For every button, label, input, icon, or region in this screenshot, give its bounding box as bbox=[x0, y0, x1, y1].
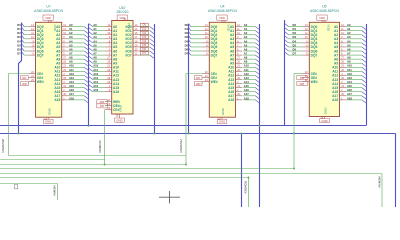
bottom control wire y160 bbox=[0, 159, 105, 161]
svg-text:A8: A8 bbox=[93, 56, 97, 60]
U? WE# global label bbox=[21, 82, 29, 86]
svg-text:MEMR#: MEMR# bbox=[53, 186, 57, 197]
svg-text:D7: D7 bbox=[185, 51, 189, 55]
svg-text:A16: A16 bbox=[244, 88, 249, 92]
IC U4 AS6C4008-55PCN body bbox=[209, 22, 235, 117]
svg-text:VCC: VCC bbox=[127, 23, 131, 30]
svg-text:A0: A0 bbox=[347, 23, 351, 27]
MEMR vertical net label bbox=[53, 186, 57, 197]
svg-text:A3: A3 bbox=[347, 35, 351, 39]
svg-text:RD: RD bbox=[22, 76, 26, 80]
svg-text:D5: D5 bbox=[185, 43, 189, 47]
svg-text:A4: A4 bbox=[347, 39, 351, 43]
U5 reference designator bbox=[322, 5, 326, 9]
bottom control wire y173 with right drop bbox=[0, 174, 382, 208]
IC U? AS6C4008-55PCN body bbox=[36, 22, 62, 117]
svg-text:D0: D0 bbox=[185, 23, 189, 27]
svg-text:A10: A10 bbox=[93, 64, 98, 68]
svg-text:GND: GND bbox=[219, 119, 225, 123]
data bus vertical left of U5 bbox=[284, 20, 286, 126]
svg-text:A8: A8 bbox=[244, 56, 248, 60]
svg-text:A5: A5 bbox=[347, 43, 351, 47]
svg-text:A18: A18 bbox=[54, 98, 60, 102]
U5 top power pin VDD pin 32 with VDD global label bbox=[317, 15, 331, 32]
U10 top power pin VCC pin 32 with VDD global label bbox=[117, 15, 131, 30]
svg-text:ROMOE#: ROMOE# bbox=[244, 181, 248, 194]
svg-text:A12: A12 bbox=[244, 72, 249, 76]
svg-text:A15: A15 bbox=[93, 84, 98, 88]
svg-text:A7: A7 bbox=[244, 51, 248, 55]
svg-text:A4: A4 bbox=[69, 39, 73, 43]
svg-text:D2: D2 bbox=[293, 31, 297, 35]
U? reference designator bbox=[46, 5, 50, 9]
U4 OE WE label wires bbox=[201, 78, 203, 84]
svg-text:RAMCS0#: RAMCS0# bbox=[1, 138, 5, 152]
svg-text:A6: A6 bbox=[93, 47, 97, 51]
svg-text:D0: D0 bbox=[17, 23, 21, 27]
svg-text:A0: A0 bbox=[244, 23, 248, 27]
svg-text:D1: D1 bbox=[293, 27, 297, 31]
U? top power pin VDD pin 32 with VDD global label bbox=[43, 15, 57, 32]
svg-text:A10: A10 bbox=[69, 64, 74, 68]
U? address wires A0-A18 to bus with net labels and bus entries bbox=[69, 23, 89, 103]
svg-text:A7: A7 bbox=[69, 51, 73, 55]
svg-text:A14: A14 bbox=[93, 80, 98, 84]
svg-text:A11: A11 bbox=[347, 68, 352, 72]
U5 address wires A0-A18 to bus with net labels and bus entries bbox=[346, 23, 366, 103]
svg-text:ROMCS#: ROMCS# bbox=[98, 140, 102, 153]
svg-text:A5: A5 bbox=[93, 43, 97, 47]
IC U5 AS6C4008-55PCN body bbox=[309, 22, 339, 116]
svg-text:I/O7: I/O7 bbox=[125, 53, 131, 57]
U4 WE# global label bbox=[194, 82, 202, 86]
svg-text:U4: U4 bbox=[220, 5, 224, 9]
svg-text:D0: D0 bbox=[293, 23, 297, 27]
svg-text:GND: GND bbox=[47, 107, 51, 115]
svg-text:A5: A5 bbox=[69, 43, 73, 47]
U4 CE# wire to bottom bbox=[185, 74, 202, 166]
U4 OE# global label bbox=[194, 76, 202, 80]
svg-text:A2: A2 bbox=[347, 31, 351, 35]
svg-text:A15: A15 bbox=[244, 84, 249, 88]
U4 data wires D0-D7 from left bus with net labels and bus entries bbox=[185, 23, 203, 55]
data bus vertical left of U4 bbox=[188, 24, 190, 134]
svg-text:D3: D3 bbox=[17, 35, 21, 39]
svg-text:A17: A17 bbox=[347, 92, 352, 96]
svg-text:A18: A18 bbox=[228, 98, 234, 102]
svg-text:A18: A18 bbox=[347, 96, 352, 100]
svg-text:A8: A8 bbox=[69, 56, 73, 60]
data bus vertical left of U? bbox=[19, 23, 22, 134]
svg-text:GND: GND bbox=[45, 119, 51, 123]
svg-text:A12: A12 bbox=[69, 72, 74, 76]
svg-text:A0: A0 bbox=[69, 23, 73, 27]
U5 OE# global label bbox=[297, 76, 307, 80]
svg-text:D4: D4 bbox=[185, 39, 189, 43]
svg-text:A1: A1 bbox=[93, 27, 97, 31]
U5 WE# global label bbox=[297, 82, 307, 86]
svg-text:AS6C4008-55PCN: AS6C4008-55PCN bbox=[310, 9, 339, 13]
svg-text:A13: A13 bbox=[244, 76, 249, 80]
MEMW vertical net label bbox=[378, 177, 382, 188]
U? left-side pins with numbers and names bbox=[29, 24, 44, 84]
U? value label AS6C4008-55PCN bbox=[34, 9, 63, 13]
U10 right-side pins with numbers and names bbox=[125, 24, 139, 57]
U4 top power pin VDD pin 32 with VDD global label bbox=[217, 15, 231, 32]
bottom control wire y164 bbox=[0, 164, 186, 166]
svg-text:DQ7: DQ7 bbox=[211, 53, 218, 57]
svg-text:28C010: 28C010 bbox=[116, 10, 128, 14]
svg-text:D5: D5 bbox=[293, 43, 297, 47]
svg-text:D1: D1 bbox=[17, 27, 21, 31]
svg-text:A3: A3 bbox=[69, 35, 73, 39]
svg-text:A11: A11 bbox=[244, 68, 249, 72]
svg-text:A9: A9 bbox=[244, 60, 248, 64]
U5 data wires D0-D7 from left bus with net labels and bus entries bbox=[284, 23, 302, 55]
svg-text:A16: A16 bbox=[347, 88, 352, 92]
svg-text:A15: A15 bbox=[347, 84, 352, 88]
horizontal bus line 1 bbox=[0, 125, 366, 127]
svg-text:D1: D1 bbox=[185, 27, 189, 31]
U? bottom ground pin GND pin 16 with GND global label bbox=[43, 107, 53, 123]
svg-text:GND: GND bbox=[324, 107, 328, 115]
svg-text:A13: A13 bbox=[69, 76, 74, 80]
svg-text:VDD: VDD bbox=[327, 25, 331, 32]
bus line 2 right vertical drop bbox=[395, 134, 397, 208]
U5 CE# wire to bottom bbox=[294, 74, 302, 169]
svg-text:D7: D7 bbox=[143, 51, 147, 55]
svg-text:A14: A14 bbox=[244, 80, 249, 84]
svg-text:A2: A2 bbox=[244, 31, 248, 35]
svg-text:U?: U? bbox=[46, 5, 50, 9]
U10 reference designator bbox=[119, 6, 125, 10]
svg-text:A10: A10 bbox=[347, 64, 352, 68]
U10 label wires bbox=[105, 102, 107, 106]
address bus vertical between U? and U10 bbox=[88, 24, 90, 126]
svg-text:A6: A6 bbox=[347, 47, 351, 51]
svg-text:GND: GND bbox=[119, 104, 123, 112]
svg-text:AS6C4008-55PCN: AS6C4008-55PCN bbox=[34, 9, 63, 13]
svg-text:MEMW#: MEMW# bbox=[378, 177, 382, 188]
svg-text:A11: A11 bbox=[93, 68, 98, 72]
U10 address wires A0-A16 from bus with net labels and bus entries bbox=[89, 23, 105, 92]
U4 value label AS6C4008-55PCN bbox=[208, 9, 237, 13]
U? right-side pins with numbers and names bbox=[54, 24, 68, 102]
U5 bottom ground pin GND pin 16 with GND global label bbox=[320, 107, 330, 123]
svg-text:A4: A4 bbox=[93, 39, 97, 43]
svg-text:A3: A3 bbox=[93, 35, 97, 39]
IC U10 28C010 body bbox=[112, 21, 133, 115]
svg-text:A5: A5 bbox=[244, 43, 248, 47]
net drop to bottom at x248 bbox=[248, 178, 250, 208]
svg-text:WR: WR bbox=[300, 82, 305, 86]
svg-text:U10: U10 bbox=[119, 6, 125, 10]
RAMCS0 vertical net label bbox=[1, 138, 5, 152]
svg-text:A9: A9 bbox=[93, 60, 97, 64]
svg-text:A16: A16 bbox=[69, 88, 74, 92]
svg-text:RD: RD bbox=[100, 104, 104, 108]
U10 bottom ground pin GND pin 16 with GND global label bbox=[115, 104, 125, 122]
U10 CE# wire down bbox=[104, 110, 106, 166]
RAMCS0 horizontal wire bbox=[9, 155, 187, 157]
svg-text:D3: D3 bbox=[185, 35, 189, 39]
bottom control wire y168 bbox=[0, 168, 295, 170]
svg-text:D5: D5 bbox=[17, 43, 21, 47]
svg-text:U5: U5 bbox=[322, 5, 326, 9]
svg-text:A1: A1 bbox=[69, 27, 73, 31]
bus junction dots bbox=[18, 125, 295, 135]
address bus vertical right of U4 bbox=[259, 24, 261, 207]
svg-text:A10: A10 bbox=[244, 64, 249, 68]
svg-text:A2: A2 bbox=[93, 31, 97, 35]
svg-text:WE#: WE# bbox=[211, 80, 218, 84]
svg-text:GND: GND bbox=[321, 119, 327, 123]
svg-text:A14: A14 bbox=[347, 80, 352, 84]
svg-text:A3: A3 bbox=[244, 35, 248, 39]
bus vertical drop below horizontal bus 2 bbox=[241, 134, 243, 208]
svg-text:VDD: VDD bbox=[53, 25, 57, 32]
svg-text:A7: A7 bbox=[347, 51, 351, 55]
svg-text:A17: A17 bbox=[244, 92, 249, 96]
U5 value label AS6C4008-55PCN bbox=[310, 9, 339, 13]
U10 OE# global label bbox=[97, 104, 107, 108]
svg-text:VDD: VDD bbox=[119, 16, 125, 20]
svg-text:DQ7: DQ7 bbox=[311, 53, 318, 57]
svg-text:GND: GND bbox=[116, 118, 122, 122]
data bus vertical right of U10 bbox=[154, 24, 156, 134]
U? OE# global label bbox=[21, 76, 29, 80]
U10 data wires D0-D7 with labels and bus entries bbox=[140, 23, 154, 59]
svg-text:WE#: WE# bbox=[37, 80, 44, 84]
svg-text:RD: RD bbox=[300, 76, 304, 80]
U4 left-side pins with numbers and names bbox=[203, 24, 218, 84]
svg-text:A9: A9 bbox=[347, 60, 351, 64]
svg-text:VDD: VDD bbox=[45, 16, 51, 20]
svg-text:DQ7: DQ7 bbox=[37, 53, 44, 57]
svg-text:VDD: VDD bbox=[319, 16, 325, 20]
svg-text:D6: D6 bbox=[293, 47, 297, 51]
svg-text:D2: D2 bbox=[185, 31, 189, 35]
svg-text:A6: A6 bbox=[69, 47, 73, 51]
bottom left wire y183.5 bbox=[0, 184, 58, 201]
svg-text:D4: D4 bbox=[293, 39, 297, 43]
svg-text:A18: A18 bbox=[332, 98, 338, 102]
U10 WE# global label bbox=[97, 100, 107, 104]
svg-text:D3: D3 bbox=[293, 35, 297, 39]
svg-text:A15: A15 bbox=[69, 84, 74, 88]
svg-text:D4: D4 bbox=[17, 39, 21, 43]
svg-text:A9: A9 bbox=[69, 60, 73, 64]
svg-text:D7: D7 bbox=[293, 51, 297, 55]
svg-text:A14: A14 bbox=[69, 80, 74, 84]
U5 right-side pins with numbers and names bbox=[332, 24, 346, 102]
U4 right-side pins with numbers and names bbox=[228, 24, 242, 102]
svg-text:A12: A12 bbox=[347, 72, 352, 76]
U? data wires D0-D7 from left bus with net labels and bus entries bbox=[17, 23, 28, 55]
U10 left-side pins with numbers and names bbox=[105, 24, 120, 112]
ROMOE vertical net label bbox=[244, 181, 248, 194]
svg-text:RAMCS1#: RAMCS1# bbox=[179, 138, 183, 152]
svg-text:VDD: VDD bbox=[227, 25, 231, 32]
svg-text:D7: D7 bbox=[17, 51, 21, 55]
unconnected marker bbox=[15, 184, 18, 189]
U10 value label 28C010 bbox=[116, 10, 128, 14]
U4 address wires A0-A18 to bus with net labels and bus entries bbox=[243, 23, 259, 103]
svg-text:A18: A18 bbox=[244, 96, 249, 100]
svg-text:A18: A18 bbox=[69, 96, 74, 100]
svg-text:A13: A13 bbox=[93, 76, 98, 80]
svg-text:A2: A2 bbox=[69, 31, 73, 35]
svg-text:D2: D2 bbox=[17, 31, 21, 35]
svg-text:WR: WR bbox=[196, 82, 201, 86]
svg-text:A1: A1 bbox=[244, 27, 248, 31]
U5 left-side pins with numbers and names bbox=[303, 24, 318, 84]
editor crosshair cursor bbox=[159, 191, 180, 203]
ROMCS vertical net label bbox=[98, 140, 102, 153]
svg-text:A6: A6 bbox=[244, 47, 248, 51]
svg-text:A11: A11 bbox=[69, 68, 74, 72]
svg-text:D6: D6 bbox=[17, 47, 21, 51]
svg-text:A17: A17 bbox=[69, 92, 74, 96]
address bus vertical right of U5 bbox=[366, 24, 368, 126]
svg-text:A16: A16 bbox=[93, 88, 98, 92]
svg-text:WR: WR bbox=[22, 82, 27, 86]
RAMCS1 vertical net label bbox=[179, 138, 183, 152]
svg-text:A8: A8 bbox=[347, 56, 351, 60]
horizontal bus line 2 bbox=[0, 133, 396, 135]
svg-text:AS6C4008-55PCN: AS6C4008-55PCN bbox=[208, 9, 237, 13]
svg-text:A4: A4 bbox=[244, 39, 248, 43]
svg-text:A7: A7 bbox=[93, 51, 97, 55]
svg-text:WE#: WE# bbox=[311, 80, 318, 84]
svg-text:A1: A1 bbox=[347, 27, 351, 31]
U4 bottom ground pin GND pin 16 with GND global label bbox=[217, 107, 227, 123]
U? OE WE label wires bbox=[27, 78, 30, 84]
svg-text:A13: A13 bbox=[347, 76, 352, 80]
svg-text:D6: D6 bbox=[185, 47, 189, 51]
U4 reference designator bbox=[220, 5, 224, 9]
svg-text:GND: GND bbox=[221, 107, 225, 115]
U? CE# wire to net RAMCS0 bbox=[9, 74, 29, 156]
bottom control wire y177 bbox=[0, 177, 249, 179]
svg-text:A12: A12 bbox=[93, 72, 98, 76]
svg-text:A16: A16 bbox=[113, 90, 119, 94]
svg-text:RD: RD bbox=[196, 76, 200, 80]
svg-text:VDD: VDD bbox=[219, 16, 225, 20]
svg-text:A0: A0 bbox=[93, 23, 97, 27]
